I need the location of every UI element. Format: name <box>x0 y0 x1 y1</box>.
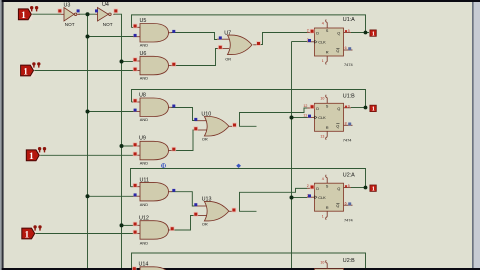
svg-text:AND: AND <box>140 240 148 245</box>
svg-text:13: 13 <box>320 135 324 139</box>
svg-text:U3: U3 <box>64 2 71 8</box>
svg-text:S: S <box>326 183 329 188</box>
svg-text:U2:B: U2:B <box>343 258 355 264</box>
svg-text:U6: U6 <box>140 51 147 57</box>
svg-text:U12: U12 <box>139 216 149 222</box>
svg-text:Q: Q <box>336 123 339 128</box>
svg-text:Q: Q <box>337 31 340 36</box>
svg-text:U9: U9 <box>139 136 146 142</box>
svg-text:7474: 7474 <box>344 217 353 222</box>
svg-text:U14: U14 <box>139 261 149 267</box>
svg-text:1: 1 <box>23 67 28 77</box>
svg-text:7474: 7474 <box>343 138 352 143</box>
svg-text:6: 6 <box>345 46 347 50</box>
svg-text:Q: Q <box>337 106 340 111</box>
svg-text:AND: AND <box>140 43 148 48</box>
svg-text:1: 1 <box>21 11 26 21</box>
svg-text:OR: OR <box>225 56 231 61</box>
svg-text:1: 1 <box>372 106 375 113</box>
svg-text:U7: U7 <box>224 31 231 37</box>
svg-text:R: R <box>326 50 329 55</box>
svg-text:1: 1 <box>29 152 34 162</box>
svg-text:D: D <box>316 106 319 111</box>
svg-text:NOT: NOT <box>65 22 75 27</box>
svg-text:12: 12 <box>303 104 307 108</box>
svg-text:2: 2 <box>307 29 309 33</box>
svg-text:CLK: CLK <box>318 40 326 45</box>
svg-text:Q: Q <box>336 203 339 208</box>
svg-text:Q: Q <box>337 186 340 191</box>
svg-text:U13: U13 <box>202 197 212 203</box>
svg-text:AND: AND <box>140 117 148 122</box>
svg-text:D: D <box>316 31 319 36</box>
svg-text:OR: OR <box>202 221 208 226</box>
svg-text:U1:B: U1:B <box>343 94 355 100</box>
svg-text:9: 9 <box>348 104 350 108</box>
svg-text:OR: OR <box>202 136 208 141</box>
svg-text:U5: U5 <box>140 18 147 24</box>
svg-text:1: 1 <box>322 214 324 218</box>
svg-text:2: 2 <box>307 184 309 188</box>
svg-text:1: 1 <box>372 186 375 193</box>
svg-text:S: S <box>326 104 329 109</box>
svg-text:1: 1 <box>372 30 375 37</box>
svg-text:7474: 7474 <box>344 62 353 67</box>
svg-text:1: 1 <box>322 59 324 63</box>
svg-text:5: 5 <box>348 29 350 33</box>
svg-text:AND: AND <box>140 75 148 80</box>
svg-text:U10: U10 <box>201 112 211 118</box>
svg-text:AND: AND <box>140 160 148 165</box>
svg-text:R: R <box>326 205 329 210</box>
svg-text:5: 5 <box>348 184 350 188</box>
svg-text:AND: AND <box>140 202 148 207</box>
svg-text:4: 4 <box>322 177 324 181</box>
svg-text:NOT: NOT <box>103 22 113 27</box>
svg-text:10: 10 <box>320 260 324 264</box>
svg-text:U4: U4 <box>102 2 109 8</box>
svg-text:8: 8 <box>345 122 347 126</box>
svg-text:U1:A: U1:A <box>343 17 355 23</box>
svg-text:U2:A: U2:A <box>343 173 355 179</box>
svg-text:U11: U11 <box>140 177 150 183</box>
svg-text:4: 4 <box>322 22 324 26</box>
svg-text:10: 10 <box>320 97 324 101</box>
svg-text:CLK: CLK <box>318 115 326 120</box>
svg-text:11: 11 <box>303 113 307 117</box>
svg-text:D: D <box>316 186 319 191</box>
svg-text:Q: Q <box>336 48 339 53</box>
svg-text:U8: U8 <box>139 93 146 99</box>
svg-text:S: S <box>326 28 329 33</box>
svg-text:R: R <box>326 125 329 130</box>
svg-text:6: 6 <box>345 202 347 206</box>
svg-text:CLK: CLK <box>318 195 326 200</box>
svg-text:1: 1 <box>25 230 30 240</box>
